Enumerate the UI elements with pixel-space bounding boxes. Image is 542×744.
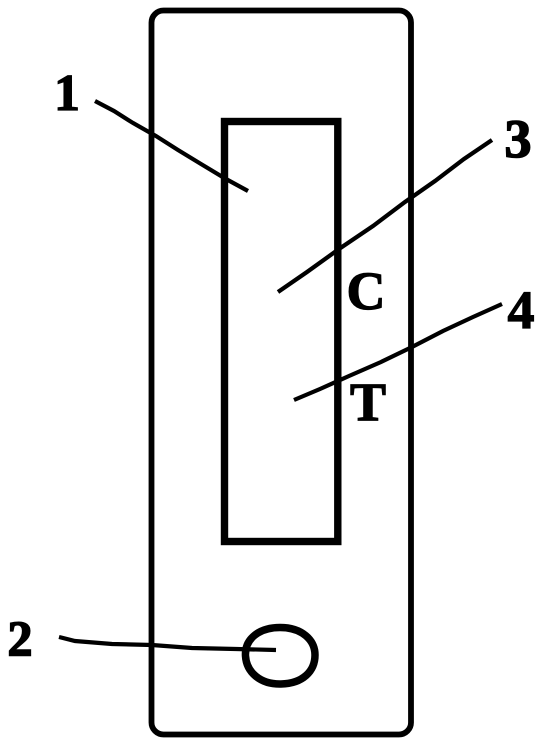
svg-text:T: T xyxy=(350,372,386,432)
leader line 4 xyxy=(294,304,502,400)
svg-text:1: 1 xyxy=(54,65,80,122)
observation window xyxy=(225,122,338,542)
leader line 2 xyxy=(59,637,276,650)
sample well circle xyxy=(245,628,315,685)
leader line 1 xyxy=(95,101,248,191)
cassette body outline xyxy=(152,11,412,735)
svg-text:C: C xyxy=(347,261,386,321)
svg-text:3: 3 xyxy=(505,109,532,169)
leader line 3 xyxy=(278,140,492,292)
svg-text:2: 2 xyxy=(8,610,33,666)
svg-text:4: 4 xyxy=(508,280,535,340)
